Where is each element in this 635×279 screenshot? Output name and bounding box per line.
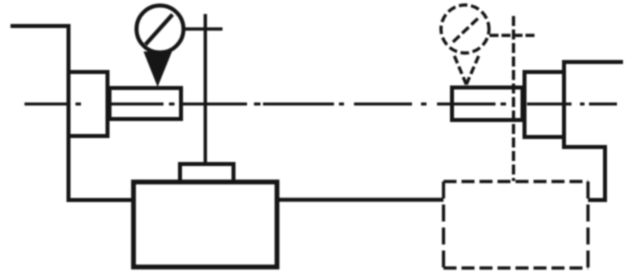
dial indicator A contact tip [144,52,173,88]
dial indicator B contact tip (dashed) [454,54,480,85]
stand base B (dashed outline) [444,182,589,269]
indicator stand column B (dashed) [512,16,515,181]
wire: top-right line, tailstock right edge and lower step [564,62,623,200]
dial indicator A mount arm [184,27,223,30]
stand pedestal [180,164,234,182]
dial indicator B mount arm (dashed) [490,34,536,37]
indicator stand column A [204,14,207,165]
tailstock quill shaft (dashed position B journal) [452,88,523,121]
wire: link from base A to base B [277,198,444,202]
dial indicator B needle (dashed) [453,16,481,42]
dial indicator B body (dashed) [441,5,489,53]
stand base A [134,182,278,267]
tailstock block [525,72,565,137]
spindle shaft (solid position) [110,88,182,119]
dial indicator A needle [146,15,173,45]
headstock block [69,72,108,136]
wire: top-left feed line, left column and base link [11,26,134,200]
dial indicator A body [137,6,184,53]
centerline (dash-dot axis) [25,103,618,106]
